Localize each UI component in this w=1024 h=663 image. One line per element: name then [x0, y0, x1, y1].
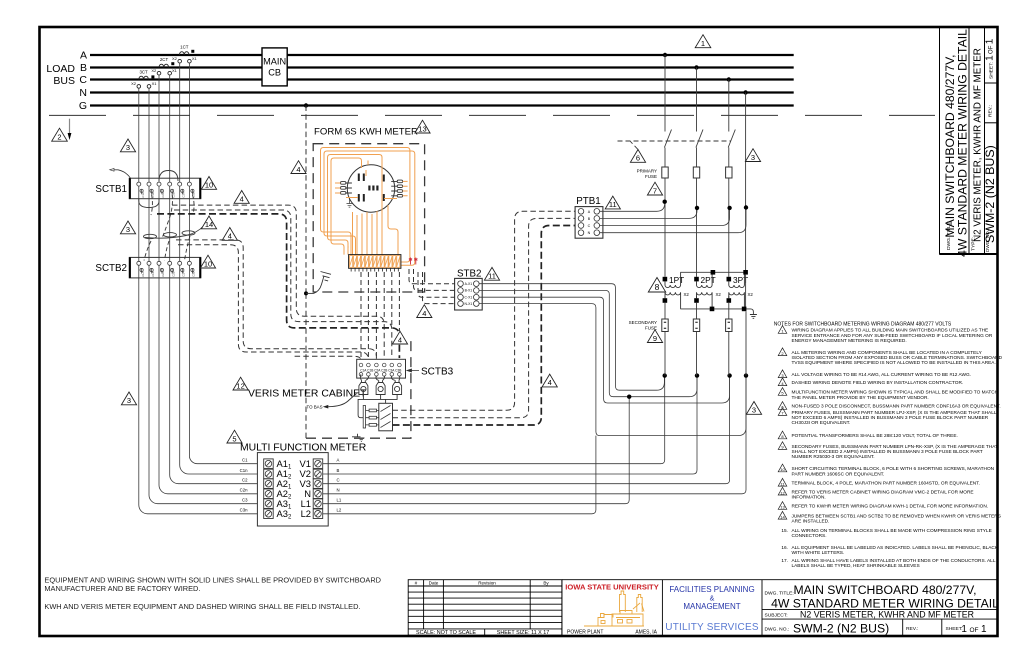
note 1 [778, 326, 787, 334]
svg-text:C1n: C1n [240, 468, 248, 473]
svg-text:C2: C2 [242, 478, 248, 483]
dashed heavy wire SCTB1 to SCTB3 (3) [157, 214, 399, 358]
svg-text:FUSE: FUSE [645, 174, 657, 179]
svg-text:VERIS METER CABINET: VERIS METER CABINET [248, 389, 367, 400]
svg-text:X2: X2 [151, 68, 157, 73]
primary fuse C [726, 167, 732, 178]
triangle 4 (right of meter rows) [542, 374, 557, 387]
svg-text:SCTB2: SCTB2 [95, 263, 127, 274]
svg-text:SUBJECT:: SUBJECT: [765, 613, 788, 619]
svg-text:BUS: BUS [53, 75, 75, 87]
svg-text:INFORMATION.: INFORMATION. [792, 494, 826, 500]
triangle 3 (mid left) [120, 221, 135, 234]
strip lower ticks [351, 268, 398, 271]
veris CT sensor 3 [391, 376, 401, 394]
secondary fuse outputs down [664, 332, 666, 376]
veris meter unit [379, 403, 393, 431]
svg-text:WITH WHITE LETTERS.: WITH WHITE LETTERS. [792, 550, 845, 556]
veris CT sensor 2 [376, 376, 385, 394]
svg-text:SCTB1: SCTB1 [95, 184, 127, 195]
note 10 [778, 464, 787, 472]
junction dots PT secondary [663, 373, 667, 377]
N vertical to junction [745, 311, 747, 375]
svg-text:1: 1 [701, 39, 705, 48]
svg-text:TVSS EQUIPMENT WHERE SPECIFIED: TVSS EQUIPMENT WHERE SPECIFIED IS NOT AL… [792, 360, 996, 366]
orange stubs left stack [335, 183, 341, 193]
svg-text:15.: 15. [781, 528, 788, 534]
wire 3CT-X1 drop [148, 88, 150, 495]
note 4 [778, 378, 787, 386]
svg-text:SECONDARY: SECONDARY [629, 320, 657, 325]
wire 2CT-X1 drop [169, 75, 171, 475]
main CB [262, 48, 287, 86]
svg-text:C1: C1 [242, 458, 248, 463]
orange bus through meter [346, 198, 397, 199]
bus B [90, 66, 794, 68]
bus A [90, 54, 794, 56]
junction dots at PTB1 taps [663, 200, 667, 204]
svg-text:2: 2 [57, 133, 61, 142]
svg-text:11: 11 [488, 272, 496, 281]
X1 drops to secondary fuses [664, 303, 666, 319]
triangle 5 [227, 430, 242, 443]
SCTB1 top-left lead arrow [114, 170, 131, 178]
2CT on bus B [157, 64, 171, 75]
note 6 [778, 402, 787, 410]
3PT [727, 272, 754, 309]
svg-text:13: 13 [780, 505, 785, 510]
svg-text:DASHED WIRING DENOTE FIELD WIR: DASHED WIRING DENOTE FIELD WIRING BY INS… [792, 380, 964, 386]
svg-text:16.: 16. [781, 545, 788, 551]
svg-text:C: C [588, 224, 591, 228]
wire 2CT-X2 drop [158, 75, 160, 485]
svg-text:TO BAS: TO BAS [307, 405, 323, 410]
svg-text:MULTI FUNCTION METER: MULTI FUNCTION METER [240, 443, 367, 454]
SCTB3 block [357, 359, 406, 378]
STB2 wires to PT secondary junctions [479, 284, 746, 436]
secondary fuse A [662, 319, 668, 332]
svg-text:3: 3 [751, 153, 755, 162]
bus C [90, 78, 794, 80]
svg-text:SWM-2 (N2 BUS): SWM-2 (N2 BUS) [793, 622, 889, 636]
SCTB2 terminal block [129, 257, 201, 278]
svg-text:By: By [543, 580, 549, 585]
svg-text:TERMINAL BLOCK, 4 POLE, MARATH: TERMINAL BLOCK, 4 POLE, MARATHON PART NU… [792, 481, 980, 487]
svg-text:C: C [79, 74, 87, 86]
note 11 [778, 478, 787, 486]
phase C drop upper [728, 80, 730, 132]
dashed wire SCTB2 to SCTB3 (1) [176, 240, 376, 360]
svg-text:C2B: C2B [171, 271, 175, 276]
svg-text:10: 10 [204, 259, 212, 268]
triangle 11 (PTB1) [605, 196, 620, 209]
note 8 [778, 431, 787, 439]
svg-text:X2: X2 [684, 292, 690, 297]
SCTB1 screw symbols [140, 189, 194, 194]
triangle 4 (right of SCTB2) [222, 228, 237, 241]
orange stubs right stack [403, 181, 408, 195]
svg-text:C2n: C2n [240, 488, 248, 493]
1PT [663, 272, 690, 309]
svg-text:L2: L2 [301, 508, 311, 519]
svg-text:17.: 17. [781, 558, 788, 564]
disconnect dashed link [618, 141, 732, 150]
svg-text:X2: X2 [748, 292, 754, 297]
svg-text:14: 14 [205, 220, 213, 229]
veris CT sensor 1 [359, 374, 369, 394]
svg-text:SHEET SIZE: 11 X 17: SHEET SIZE: 11 X 17 [497, 630, 550, 636]
triangle 4 (above SCTB3) [392, 331, 407, 344]
wire PTB1 C [600, 208, 730, 226]
svg-text:14: 14 [780, 514, 785, 519]
wire curve into MFM row C3n [139, 505, 258, 514]
vertical separators of blocks [561, 580, 563, 636]
jumper wire ellipses (note 14) [144, 226, 204, 239]
svg-text:6: 6 [636, 154, 640, 163]
X2 bus [680, 308, 750, 310]
triangle 2 with down arrow [52, 119, 72, 142]
svg-text:8: 8 [655, 282, 660, 292]
svg-text:3: 3 [127, 396, 131, 405]
H2 bus [680, 271, 745, 273]
svg-text:C3A: C3A [182, 271, 186, 276]
SCTB1 jumper arc above (3-5) [159, 171, 178, 182]
note 7 [778, 408, 787, 416]
svg-text:4: 4 [240, 195, 244, 204]
bus labels [46, 50, 87, 113]
meter internal contacts [358, 174, 385, 202]
triangle 11 (STB2) [484, 267, 499, 280]
junction dot bus B [694, 65, 698, 69]
svg-text:C1A: C1A [141, 271, 145, 276]
wire row C [323, 376, 730, 484]
wire 3CT-X2 drop [138, 88, 140, 505]
svg-text:9: 9 [653, 334, 657, 343]
svg-text:4: 4 [548, 378, 552, 387]
svg-text:IOWA STATE UNIVERSITY: IOWA STATE UNIVERSITY [565, 583, 659, 592]
wire row N [323, 376, 746, 494]
svg-text:SCALE: NOT TO SCALE: SCALE: NOT TO SCALE [416, 630, 476, 636]
wire row A [323, 376, 665, 464]
note 2 [778, 348, 787, 356]
svg-text:3: 3 [126, 143, 130, 152]
neutral drop [745, 93, 747, 273]
SCTB1 terminals [137, 182, 192, 186]
wire PTB1 N [600, 208, 746, 233]
wire STB2 N [479, 304, 746, 436]
wire STB2 B [479, 290, 697, 396]
svg-text:PTB1: PTB1 [576, 196, 601, 207]
note 5 [778, 388, 787, 396]
note 12 [778, 487, 787, 495]
svg-text:C3n: C3n [240, 508, 248, 513]
svg-text:B: B [80, 62, 87, 74]
meter right terminal stack [391, 180, 402, 197]
wire 1CT-X2 drop [179, 63, 181, 465]
junction dot bus N [743, 90, 747, 94]
dashed cross jumpers SCTB1->SCTB2 [144, 195, 194, 261]
svg-text:10: 10 [205, 181, 213, 190]
triangle 13 [415, 120, 430, 133]
svg-text:ARE INSTALLED.: ARE INSTALLED. [792, 519, 830, 525]
junction dot bus G (dashed drop) [304, 103, 308, 107]
svg-text:X2: X2 [716, 292, 722, 297]
svg-text:C1A C1B C2A C2B C3A C3B: C1A C1B C2A C2B C3A C3B [360, 368, 401, 372]
svg-text:A-X1: A-X1 [465, 282, 473, 286]
svg-text:C2A: C2A [161, 271, 165, 276]
svg-text:2CT: 2CT [160, 57, 169, 62]
orange loop 2 [324, 151, 415, 265]
svg-text:X2: X2 [172, 56, 178, 61]
svg-text:N: N [588, 231, 591, 235]
svg-text:B-X1: B-X1 [465, 289, 473, 293]
svg-text:L2: L2 [337, 508, 342, 513]
svg-text:CH30J3I OR EQUIVALENT.: CH30J3I OR EQUIVALENT. [792, 420, 851, 426]
svg-text:4: 4 [398, 335, 402, 344]
svg-text:X1: X1 [152, 81, 158, 86]
svg-text:C3: C3 [242, 498, 248, 503]
revision table [408, 580, 562, 636]
svg-text:C2A: C2A [161, 192, 165, 197]
svg-text:4: 4 [228, 232, 232, 241]
svg-text:C1A: C1A [141, 192, 145, 197]
svg-text:C1B: C1B [151, 271, 155, 276]
switch blade C [728, 130, 735, 148]
triangle 14 [201, 216, 216, 229]
svg-text:N-X1: N-X1 [465, 302, 473, 306]
bus N [90, 91, 794, 93]
SCTB2 screw symbols [140, 268, 194, 273]
svg-text:Revision: Revision [478, 580, 496, 585]
veris dashed outputs to PTB1 [393, 211, 576, 410]
fuse outputs down to PT primaries [664, 178, 666, 277]
G wire dashed drop [305, 106, 307, 294]
secondary fuse B [693, 319, 699, 332]
triangle 4 (left of kwh box) [291, 161, 306, 174]
wire curve into MFM row C2 [170, 475, 258, 484]
3CT on bus C [137, 76, 151, 88]
svg-text:NON-FUSED 3 POLE DISCONNECT, B: NON-FUSED 3 POLE DISCONNECT, BUSSMANN PA… [792, 404, 1001, 410]
svg-text:2PT: 2PT [701, 275, 716, 285]
switch blade A [664, 130, 671, 148]
triangle 4 (right of SCTB1) [234, 191, 249, 204]
svg-text:SWM-2 (N2 BUS): SWM-2 (N2 BUS) [983, 145, 997, 243]
primary fuse A [662, 167, 668, 178]
note 9 [778, 442, 787, 450]
orange loop 3 [328, 155, 383, 255]
svg-text:STB2: STB2 [457, 268, 482, 279]
orange loop 1 [321, 148, 410, 263]
triangle 3 (disconnect) [745, 149, 760, 162]
wire PTB1 A [600, 202, 665, 212]
svg-text:CB: CB [268, 68, 281, 78]
svg-text:PART NUMBER 1606SC OR EQUIVALE: PART NUMBER 1606SC OR EQUIVALENT. [792, 471, 885, 477]
X2 bus ground [751, 309, 754, 314]
svg-text:MAIN: MAIN [263, 57, 286, 67]
wire curve into MFM row C1n [180, 465, 258, 474]
svg-text:CONNECTORS.: CONNECTORS. [792, 533, 827, 539]
svg-text:NUMBER R25030-3 OR EQUIVALENT.: NUMBER R25030-3 OR EQUIVALENT. [792, 454, 875, 460]
svg-text:MANAGEMENT: MANAGEMENT [683, 602, 740, 611]
svg-text:THE PANEL METER PROVIDE BY THE: THE PANEL METER PROVIDE BY THE EQUIPMENT… [792, 395, 929, 401]
svg-text:G: G [79, 100, 87, 112]
meter left terminal stack [341, 182, 352, 195]
triangle 10 (SCTB1) [201, 177, 216, 190]
svg-text:X2: X2 [131, 81, 137, 86]
phase A drop upper [664, 55, 666, 132]
kwh terminal strip [349, 255, 401, 269]
svg-text:X1: X1 [192, 56, 198, 61]
svg-text:3CT: 3CT [139, 70, 148, 75]
junction dot bus A [663, 53, 667, 57]
svg-text:REV.:: REV.: [988, 105, 994, 117]
svg-text:N2 VERIS METER, KWHR AND MF ME: N2 VERIS METER, KWHR AND MF METER [973, 48, 984, 242]
note 3 [778, 370, 787, 378]
svg-text:3: 3 [126, 225, 130, 234]
ISU logo block [565, 583, 659, 636]
triangle 12 [233, 377, 248, 390]
2PT [694, 272, 721, 309]
svg-text:NOTES FOR SWITCHBOARD METERING: NOTES FOR SWITCHBOARD METERING WIRING DI… [774, 322, 952, 328]
svg-text:7: 7 [653, 186, 657, 195]
SCTB2 terminals [137, 261, 192, 265]
N continues to X2 bus [745, 275, 747, 309]
sensor interconnect wiring [358, 395, 397, 418]
triangle 10 (SCTB2) [200, 255, 215, 268]
svg-text:4: 4 [422, 309, 426, 318]
dashed wire into SCTB3 c1 [295, 356, 361, 362]
triangle 8 (PT) [648, 278, 665, 293]
SCTB1 terminal block [129, 178, 201, 199]
svg-text:C3B: C3B [192, 271, 196, 276]
svg-text:1CT: 1CT [180, 45, 189, 50]
SCTB1 jumper U below (1-3) [139, 199, 159, 208]
svg-text:LOAD: LOAD [46, 63, 75, 75]
svg-text:12: 12 [236, 381, 244, 390]
svg-text:3: 3 [752, 406, 756, 415]
svg-text:Date: Date [429, 580, 439, 585]
svg-text:REFER TO KWHR METER WIRING DIA: REFER TO KWHR METER WIRING DIAGRAM KWH-1… [792, 504, 989, 510]
svg-text:KWH AND VERIS METER EQUIPMENT: KWH AND VERIS METER EQUIPMENT AND DASHED… [44, 602, 360, 611]
svg-text:4: 4 [296, 165, 300, 174]
MFM terminals [240, 458, 342, 521]
cabinet dashed edges [306, 341, 411, 438]
MFM box [257, 453, 328, 526]
primary fuse B [693, 167, 699, 178]
svg-text:12: 12 [780, 490, 785, 495]
svg-text:LABELS SHALL BE TYPED, HEAT SH: LABELS SHALL BE TYPED, HEAT SHRINKABLE S… [792, 563, 920, 569]
svg-text:13: 13 [418, 124, 426, 133]
dashed wire SCTB1 to SCTB3 (1) [172, 205, 384, 358]
svg-text:C-X1: C-X1 [465, 296, 473, 300]
svg-text:DWG. NO.:: DWG. NO.: [765, 627, 790, 633]
dashed wire SCTB2 to SCTB3 (2) [178, 245, 368, 362]
phase B drop upper [696, 68, 698, 132]
meter internal ground [347, 199, 353, 207]
wire curve into MFM row C2n [159, 485, 257, 494]
svg-text:C3A: C3A [182, 192, 186, 197]
svg-text:AMES, IA: AMES, IA [635, 630, 657, 636]
dwg title block texts [765, 583, 1000, 636]
svg-text:N2 VERIS METER, KWHR AND MF ME: N2 VERIS METER, KWHR AND MF METER [800, 609, 974, 619]
svg-text:5: 5 [232, 434, 236, 443]
bus G [90, 104, 794, 106]
svg-text:SCTB3: SCTB3 [421, 367, 454, 378]
svg-text:X1: X1 [172, 68, 178, 73]
svg-text:B: B [337, 468, 340, 473]
svg-text:N: N [337, 488, 340, 493]
svg-text:MANUFACTURER AND BE FACTORY WI: MANUFACTURER AND BE FACTORY WIRED. [44, 584, 200, 593]
wire 1CT-X1 drop [188, 63, 190, 456]
grounding switch at G drop [304, 291, 308, 295]
svg-text:POTENTIAL TRANSFORMERS SHALL B: POTENTIAL TRANSFORMERS SHALL BE 288:120 … [792, 433, 958, 439]
junction dot bus C [727, 77, 731, 81]
kwh meter dashed enclosure [313, 144, 424, 292]
dashed drops kwh box to STB2 [409, 269, 455, 304]
triangle 1 [695, 35, 711, 48]
svg-text:ENERGY MANAGEMENT METERING IS: ENERGY MANAGEMENT METERING IS REQUIRED. [792, 338, 907, 344]
triangle 7 [647, 182, 662, 195]
svg-text:FACILITIES PLANNING: FACILITIES PLANNING [669, 585, 754, 594]
svg-text:C: C [337, 478, 340, 483]
facilities planning block [665, 585, 759, 633]
svg-text:10: 10 [780, 467, 785, 472]
1CT on bus A [178, 52, 191, 63]
svg-text:A: A [337, 458, 340, 463]
red marks [409, 258, 418, 265]
power plant building sketch [584, 591, 644, 626]
svg-text:N: N [79, 87, 87, 99]
wire curve into MFM row C3 [149, 495, 257, 504]
triangle 3 (upper left) [120, 139, 135, 152]
wire row L2 [323, 436, 596, 514]
secondary fuse C [726, 319, 732, 332]
wire STB2 A [479, 284, 664, 391]
svg-text:REV.:: REV.: [906, 626, 918, 632]
orange drops meter to strip [353, 211, 378, 255]
wire row B [323, 376, 697, 474]
orange riser right of circle [388, 205, 398, 255]
SCTB3 label arrow [407, 369, 419, 372]
svg-text:11: 11 [609, 200, 617, 209]
dashed wire SCTB1 to SCTB3 (2) [174, 210, 392, 358]
note 13 [778, 502, 787, 510]
note 14 [778, 511, 787, 519]
triangle 9 [647, 330, 662, 343]
triangle 3 (lower left) [121, 392, 136, 405]
MFM right-side wires to PT secondaries [323, 376, 746, 514]
svg-text:PRIMARY: PRIMARY [637, 169, 657, 174]
wire STB2 C [479, 297, 729, 403]
wire curve into MFM row C1 [189, 456, 257, 464]
svg-text:4W STANDARD METER WIRING DETAI: 4W STANDARD METER WIRING DETAIL [956, 29, 970, 257]
triangle 3 (right, near notes) [746, 402, 761, 415]
wire PTB1 B [600, 208, 697, 219]
svg-text:1PT: 1PT [669, 275, 684, 285]
triangle 4 (near STB2 below) [417, 305, 432, 318]
svg-text:FORM 6S KWH METER: FORM 6S KWH METER [314, 127, 418, 138]
kwh meter circle [347, 165, 394, 212]
svg-text:ALL VOLTAGE WIRING TO BE #14 A: ALL VOLTAGE WIRING TO BE #14 AWG, ALL CU… [792, 372, 972, 378]
PTB1 wires to fuse outputs [600, 202, 746, 233]
svg-text:POWER PLANT: POWER PLANT [567, 630, 603, 636]
svg-text:SHEET:: SHEET: [946, 626, 963, 632]
svg-text:A: A [80, 50, 87, 62]
svg-text:#: # [415, 580, 418, 585]
metering compartment dashed boundary [49, 114, 935, 116]
svg-text:UTILITY SERVICES: UTILITY SERVICES [665, 622, 759, 633]
SCTB1 terminal micro labels [141, 192, 196, 197]
